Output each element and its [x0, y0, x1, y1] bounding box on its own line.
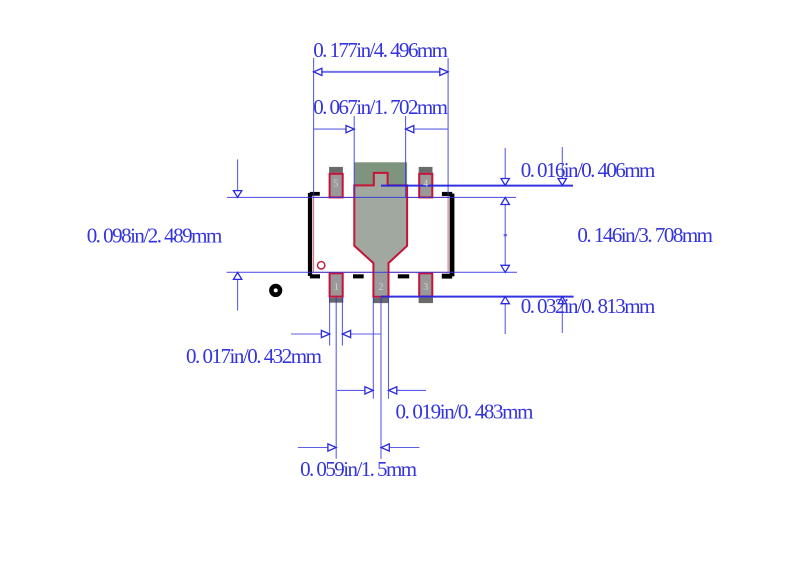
- pin 1 marker red circle inside body: [318, 262, 325, 269]
- svg-text:0. 017in/0. 432mm: 0. 017in/0. 432mm: [186, 344, 322, 368]
- extension line pad1 right (x=342.4): [341, 297, 343, 346]
- pad 3 terminal tail (dark gray): [419, 298, 433, 303]
- arrow right of dim 0.177: [440, 68, 448, 75]
- pad number digits: [333, 178, 428, 293]
- silkscreen top-left horizontal stub: [310, 192, 320, 196]
- dim 0.017 line right segment: [351, 333, 382, 335]
- right stack x=562.3 upper segment: [561, 147, 563, 178]
- silkscreen dash between pads 1-2: [353, 274, 364, 278]
- silkscreen left vertical bar: [308, 193, 312, 276]
- x505 up arrow at body top: [501, 198, 509, 205]
- extension line pad2 head right (x=405.6): [405, 116, 407, 197]
- arrow dim 0.059 right (points left): [381, 444, 389, 451]
- x505 up arrow at line D: [501, 297, 509, 304]
- svg-text:4: 4: [423, 178, 428, 189]
- dim 0.059 line right segment: [389, 447, 419, 449]
- pad 5 terminal cap (dark gray): [329, 167, 343, 173]
- extension line pad2 head left (x=354.2): [353, 116, 355, 197]
- pad 5: [330, 174, 343, 198]
- svg-text:1: 1: [334, 282, 339, 293]
- x505 down arrow at line A: [501, 179, 509, 186]
- extension line pad2 right (x=388.5): [388, 297, 390, 399]
- extension line pad1 left (x=329.6): [329, 297, 331, 346]
- arrow dim 0.017 left (points right): [321, 330, 329, 337]
- svg-text:0. 146in/3. 708mm: 0. 146in/3. 708mm: [577, 223, 713, 247]
- pad 2 tab top (dark green head): [354, 162, 407, 185]
- dim 0.177 line (y=71.9): [322, 71, 440, 73]
- x562 down arrow at line A: [558, 179, 566, 186]
- silkscreen bottom-right horizontal stub: [442, 274, 452, 279]
- pad 2 tail terminal (dark gray): [373, 298, 389, 303]
- right stack x=505.2 mid tick: [504, 234, 507, 236]
- extension line pad2 left (x=373.3): [372, 297, 374, 399]
- silkscreen right vertical bar: [450, 194, 455, 277]
- dim 0.067 line right segment: [414, 128, 448, 130]
- x505 down arrow at body bottom: [501, 265, 509, 272]
- pad 2 tail below body (plain gray): [375, 272, 388, 295]
- svg-text:0. 067in/1. 702mm: 0. 067in/1. 702mm: [313, 95, 448, 119]
- pad 2 copper outline (light green-gray with red outline, notch at top): [354, 173, 407, 297]
- svg-text:0. 019in/0. 483mm: 0. 019in/0. 483mm: [396, 399, 534, 423]
- arrow dim 0.019 right (points left): [389, 387, 397, 394]
- arrow dim 0.019 left (points right): [365, 387, 373, 394]
- thick blue lines: [322, 72, 574, 297]
- arrow dim 0.067 left (points right): [346, 126, 354, 133]
- right stack x=562.3 lower segment: [561, 304, 563, 333]
- component body outline (thin red rect): [314, 197, 449, 272]
- svg-text:0. 016in/0. 406mm: 0. 016in/0. 406mm: [521, 158, 656, 182]
- extension line body left (x=313.6): [313, 58, 315, 197]
- dim 0.019 line right segment: [397, 389, 426, 391]
- pad 4 terminal cap (dark gray): [419, 167, 433, 173]
- pad 4: [419, 174, 432, 198]
- left stack up arrow at body bottom: [233, 272, 241, 279]
- horizontal line B body top (y=197.45): [227, 196, 516, 198]
- pad 3: [419, 273, 432, 296]
- left stack vertical lower segment: [237, 280, 239, 311]
- left stack down arrow at body top: [233, 191, 241, 198]
- right stack x=505.2 bottom segment: [504, 304, 506, 334]
- extension line pad1 center (x=336.2): [335, 297, 337, 459]
- dim 0.067 line left segment: [314, 128, 347, 130]
- line A pad4/5 inner edge (y=185.6): [381, 185, 573, 187]
- dimension texts: [87, 38, 713, 481]
- svg-text:0. 032in/0. 813mm: 0. 032in/0. 813mm: [521, 294, 656, 318]
- arrow dim 0.059 left (points right): [328, 444, 336, 451]
- silkscreen top-right horizontal stub: [442, 192, 452, 196]
- right stack x=505.2 top segment: [504, 148, 506, 178]
- extension line pad2 center (x=381.0): [380, 297, 382, 459]
- right stack x=505.2 middle segment: [504, 205, 506, 266]
- arrow left of dim 0.177: [314, 68, 322, 75]
- left stack vertical upper segment (x=237.6): [237, 159, 239, 190]
- dim 0.059 line left segment: [298, 447, 328, 449]
- svg-text:5: 5: [333, 178, 338, 189]
- extension line body right (x=448.1): [447, 58, 449, 197]
- arrow dim 0.017 right (points left): [342, 330, 350, 337]
- silkscreen dash between pads 2-3: [398, 274, 409, 278]
- horizontal line C body bottom (y=272.35): [227, 271, 517, 273]
- line D pad bottom edge (y=296.6): [381, 296, 574, 298]
- svg-text:0. 059in/1. 5mm: 0. 059in/1. 5mm: [300, 457, 417, 481]
- dim 0.019 line left segment: [337, 389, 365, 391]
- svg-text:2: 2: [379, 282, 384, 293]
- dim 0.017 line left segment: [291, 333, 322, 335]
- svg-text:3: 3: [423, 282, 428, 293]
- origin marker black donut: [269, 284, 282, 297]
- x562 up arrow at line D: [558, 297, 566, 304]
- svg-text:0. 098in/2. 489mm: 0. 098in/2. 489mm: [87, 224, 223, 248]
- silkscreen bottom-left horizontal stub: [310, 274, 320, 278]
- svg-text:0. 177in/4. 496mm: 0. 177in/4. 496mm: [313, 38, 448, 62]
- arrow dim 0.067 right (points left): [406, 126, 414, 133]
- pad 1: [330, 273, 343, 296]
- thin blue extension/dimension lines: [227, 58, 563, 459]
- pad 1 terminal tail (dark gray): [329, 298, 343, 303]
- arrowheads (open blue triangles): [233, 68, 566, 451]
